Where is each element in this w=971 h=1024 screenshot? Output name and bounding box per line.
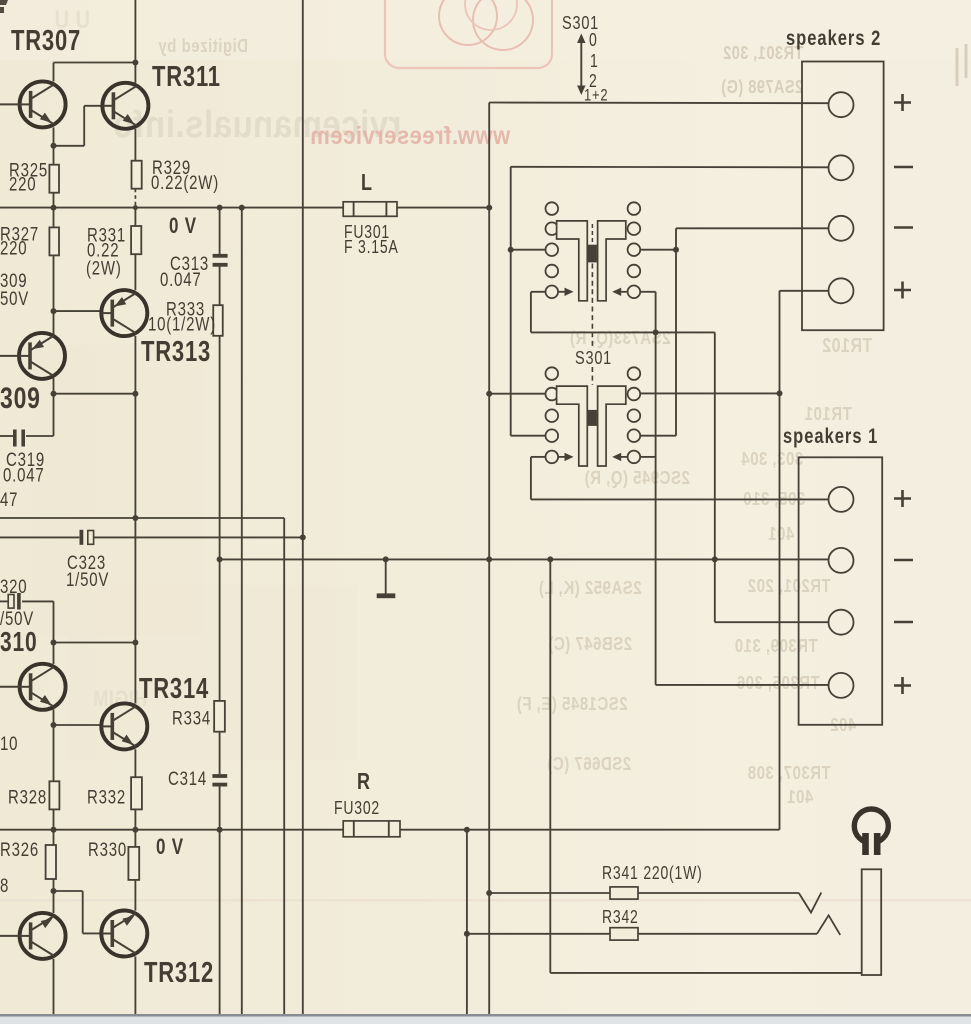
wire TR312 base zigzag <box>54 890 83 892</box>
svg-text:0 V: 0 V <box>156 835 184 860</box>
svg-text:320: 320 <box>0 575 27 597</box>
svg-text:TR101: TR101 <box>804 403 851 424</box>
wire headphone ground horizontal <box>550 972 861 974</box>
switch S301 upper slider <box>557 221 588 301</box>
node TR311 collector junction <box>132 60 138 66</box>
wire TR313 base link <box>54 310 102 312</box>
resistor R342 contact <box>638 933 817 935</box>
resistor R326 <box>46 845 56 879</box>
node C323 rail junction <box>300 534 306 540</box>
svg-text:TR201, 202: TR201, 202 <box>747 575 830 596</box>
transistor TR312 <box>101 911 147 957</box>
wire TR314 emitter to R332 <box>134 749 136 777</box>
svg-text:220: 220 <box>9 173 36 195</box>
wire L-channel feed vertical x=489.2 <box>488 103 490 1015</box>
wire C313 to R333 <box>219 267 221 306</box>
resistor R332 <box>131 777 142 809</box>
node C313 top junction <box>217 205 223 211</box>
speakers 2 polarity symbols <box>894 94 911 111</box>
svg-text:TR313: TR313 <box>141 336 211 367</box>
svg-text:1/50V: 1/50V <box>66 568 109 590</box>
svg-text:TR307, 308: TR307, 308 <box>747 762 830 783</box>
transistor TR309 base lead <box>0 355 19 357</box>
svg-text:TR102: TR102 <box>822 334 873 356</box>
node R325 bottom on 0V rail <box>51 205 57 211</box>
wire S301 upper row3 left <box>511 249 546 251</box>
node R332 bottom on 0V rail <box>132 827 138 833</box>
resistor R341 <box>610 887 638 899</box>
wire C323 rail (y=537.4) <box>0 536 79 538</box>
wire 0V to C313 <box>219 208 221 254</box>
wire TR307 emitter to R325 <box>53 127 55 164</box>
transistor TR310 base lead <box>0 686 20 688</box>
transistor TR307 <box>20 81 66 127</box>
wire loop to speakers1 plus1 <box>531 498 829 500</box>
transistor TR314 <box>101 703 147 749</box>
resistor R334 <box>214 701 225 732</box>
wire long vertical x=241.8 <box>241 208 243 1014</box>
transistor TR313 <box>101 290 147 336</box>
wire x=219.6 to bottom <box>219 830 221 1014</box>
node TR313 base junction <box>51 308 57 314</box>
svg-text:2SC945 (Q, R): 2SC945 (Q, R) <box>584 467 690 488</box>
headphone icon <box>854 809 888 843</box>
wire 0V rail upper (y=207.6) <box>0 207 343 209</box>
node TR309 emitter junction <box>51 391 57 397</box>
fuse FU302 <box>343 821 400 837</box>
node long-rail junction x=219.6 <box>217 556 223 562</box>
speakers 1 terminal circles <box>829 487 854 512</box>
wire R327 to TR309 collector <box>53 256 55 334</box>
resistor R329 <box>132 161 142 189</box>
transistor TR308 base lead <box>0 935 20 937</box>
wire S301 lower row4 left <box>511 435 546 437</box>
svg-text:2SA798 (G): 2SA798 (G) <box>721 78 803 98</box>
svg-text:speakers 2: speakers 2 <box>786 27 881 51</box>
svg-text:401: 401 <box>768 523 795 544</box>
wire R326 to TR308 <box>53 879 55 913</box>
wire TR309 emitter down <box>53 378 55 394</box>
transistor TR308 <box>20 913 66 959</box>
svg-text:(2W): (2W) <box>86 257 122 279</box>
wire terminated stub <box>385 559 387 593</box>
switch S301 selector arrow <box>580 39 582 90</box>
node mid-rail junction <box>132 515 138 521</box>
node x=489.2 long-rail junction <box>486 556 492 562</box>
node S301 upper row3 right junction <box>673 247 679 253</box>
wire S301 lower row5 loop <box>531 456 546 458</box>
svg-text:1+2: 1+2 <box>584 86 608 105</box>
node x=489.2 row2 junction <box>486 391 492 397</box>
wire TR314 base link <box>54 724 102 726</box>
speakers 2 terminal box <box>802 62 884 331</box>
node connector long-rail junction <box>712 556 718 562</box>
svg-text:TR314: TR314 <box>139 673 209 704</box>
svg-text:303, 304: 303, 304 <box>741 448 803 469</box>
capacitor C320 <box>8 595 14 609</box>
svg-text:TR312: TR312 <box>144 957 214 988</box>
node x=466.9 top junction <box>464 827 470 833</box>
svg-text:R334: R334 <box>172 707 211 729</box>
node C320 junction <box>51 640 57 646</box>
svg-text:S301: S301 <box>575 347 612 368</box>
svg-text:0: 0 <box>589 30 598 50</box>
node stub junction <box>383 556 389 562</box>
svg-text:speakers 1: speakers 1 <box>783 425 878 449</box>
svg-text:8: 8 <box>0 874 9 896</box>
capacitor C323 <box>80 530 84 545</box>
wire R334 to C314 <box>219 732 221 774</box>
wire C320 to TR310 <box>53 643 55 665</box>
node TR314 base junction <box>51 722 57 728</box>
resistor R342 wire <box>467 933 610 935</box>
wire TR313 emitter down <box>134 336 136 394</box>
svg-text:0 V: 0 V <box>169 214 197 239</box>
switch S301 travel dashed line <box>591 224 593 243</box>
svg-text:R328: R328 <box>8 786 47 808</box>
node TR313 emitter junction <box>132 391 138 397</box>
svg-text:0.047: 0.047 <box>3 464 44 486</box>
node R328 bottom on 0V rail <box>51 827 57 833</box>
svg-text:310: 310 <box>0 627 37 657</box>
wire R325 to R327 <box>53 193 55 228</box>
wire S301 lower row4 right <box>640 435 676 437</box>
node speakers1 minus2 junction <box>714 558 716 560</box>
resistor R341 wire <box>489 892 610 894</box>
wire TR311 emitter to R329 <box>134 129 136 161</box>
svg-text:309: 309 <box>0 381 41 415</box>
svg-text:10(1/2W): 10(1/2W) <box>148 313 216 335</box>
resistor R330 <box>128 847 139 880</box>
switch S301 lower wiper arrows <box>558 456 566 458</box>
wire long vertical x=302.8 <box>302 0 304 1014</box>
switch S301 upper wiper arrows <box>558 291 566 293</box>
svg-text:TR305, 306: TR305, 306 <box>736 672 819 693</box>
node S301 upper loop junction <box>653 329 659 335</box>
svg-text:R332: R332 <box>87 786 126 808</box>
wire TR312 emitter to bottom <box>134 956 136 1014</box>
svg-text:2SA952 (K, L): 2SA952 (K, L) <box>538 577 641 598</box>
transistor TR310 <box>20 664 66 710</box>
wire R332 to R330 <box>134 809 136 847</box>
resistor R331 <box>131 226 141 254</box>
capacitor C313 <box>213 254 228 258</box>
svg-text:401: 401 <box>787 786 814 807</box>
wire R333 to rail <box>219 336 221 701</box>
wire R342 feed vertical x=466.9 <box>466 830 468 1014</box>
wire connector to speakers1 minus3 <box>715 621 829 623</box>
transistor TR311 <box>102 83 148 129</box>
capacitor C319 <box>13 430 17 447</box>
wire R330 to TR312 collector <box>134 880 136 911</box>
transistor TR307 base lead <box>0 103 20 105</box>
resistor R341 contact <box>638 892 799 894</box>
wire TR309-TR313 emitter link <box>54 393 136 395</box>
switch S301 lower contact circles <box>546 367 559 380</box>
svg-text:TR309, 310: TR309, 310 <box>734 635 817 656</box>
transistor TR309 <box>19 333 65 379</box>
resistor R325 <box>49 165 59 193</box>
wire S301 upper row3 right <box>640 249 676 251</box>
resistor R342 <box>610 928 638 940</box>
switch S301 lower slider <box>557 386 588 466</box>
wire headphone ground vertical x=550.3 <box>549 559 551 973</box>
svg-text:Digitized by: Digitized by <box>158 35 248 56</box>
speakers 2 terminal circles <box>829 92 854 117</box>
svg-text:www.freeservicem: www.freeservicem <box>310 123 511 151</box>
node x=241.8 top junction <box>239 205 245 211</box>
wire R329 dashed lead <box>134 189 136 208</box>
wire S301 box top to speakers2 minus <box>511 166 829 169</box>
wire R328 to 0V <box>53 809 55 845</box>
wire speakers2 plus2 feed <box>780 290 829 292</box>
svg-text:C314: C314 <box>168 767 207 789</box>
speakers 1 polarity symbols <box>894 490 911 507</box>
svg-text:50V: 50V <box>0 287 29 309</box>
node x=489.2 R341 junction <box>486 890 492 896</box>
svg-text:1: 1 <box>590 51 599 71</box>
node TR312 base junction <box>51 888 57 894</box>
wire TR313 emitter long down <box>134 394 136 704</box>
wire speakers2 minus2 feed <box>676 227 829 229</box>
svg-text:R342: R342 <box>602 907 639 927</box>
wire 0V rail lower (y=829.7) <box>0 829 343 831</box>
wire TR310 collector link <box>54 642 136 644</box>
resistor R333 <box>213 305 223 336</box>
wire TR307 emitter zigzag to TR311 base <box>54 145 85 147</box>
wire S301 upper row5 loop <box>531 291 546 293</box>
wire TR308 emitter to bottom <box>53 959 55 1014</box>
node TR314 collector junction <box>132 640 138 646</box>
bottom scan strip <box>0 1014 971 1017</box>
scanner dark mark top-left corner <box>0 0 8 13</box>
wire long vertical to speakers1 plus4 <box>655 292 657 685</box>
node R329 bottom on 0V rail <box>133 205 138 210</box>
resistor R328 <box>49 781 59 809</box>
fuse FU301 <box>343 202 397 217</box>
wire L-channel top corner to speakers2 plus <box>489 102 828 105</box>
svg-text:2SD667 (C): 2SD667 (C) <box>547 753 631 774</box>
svg-text:47: 47 <box>0 488 18 510</box>
wire S301 lower row2 right <box>640 392 779 394</box>
svg-text:L: L <box>361 170 373 196</box>
svg-text:220: 220 <box>0 237 27 259</box>
wire TR310 emitter down <box>53 710 55 782</box>
wire TR307 collector feed <box>54 62 136 64</box>
svg-text:TR311: TR311 <box>152 61 221 92</box>
svg-text:TR307: TR307 <box>11 25 81 56</box>
wire long rail to speakers1 minus (y=559.4) <box>220 558 829 560</box>
ghost bleed-through from reverse page <box>54 0 966 807</box>
node C314 bottom on 0V rail <box>217 827 223 833</box>
svg-text:/50V: /50V <box>0 607 34 629</box>
svg-text:2SB647 (C): 2SB647 (C) <box>548 633 632 654</box>
speakers 1 terminal box <box>799 457 883 725</box>
wire C314 to 0V <box>219 786 221 831</box>
svg-text:R330: R330 <box>88 838 127 860</box>
wire top feed to TR311 <box>134 0 136 83</box>
capacitor C320 wire <box>0 600 8 602</box>
node x=550.3 top junction <box>547 556 553 562</box>
wire R331 top lead <box>134 208 136 226</box>
switch S301 upper contact circles <box>546 202 559 215</box>
wire S301 lower row2 left <box>489 393 545 395</box>
svg-text:0.047: 0.047 <box>160 268 201 290</box>
svg-text:R: R <box>357 769 371 795</box>
wire mid rail (y=518) <box>0 517 284 519</box>
headphone jack body <box>862 869 882 975</box>
wire mid-rail corner down (x=284.2) <box>283 518 285 1014</box>
node S301 upper row3 left junction <box>508 247 514 253</box>
svg-text:2SC1845 (E, F): 2SC1845 (E, F) <box>516 693 627 714</box>
wire R331 to TR313 collector <box>134 254 136 290</box>
resistor R327 <box>49 227 59 255</box>
svg-text:F 3.15A: F 3.15A <box>344 237 399 257</box>
node x=466.9 R342 junction <box>464 931 470 937</box>
svg-text:10: 10 <box>0 732 18 754</box>
node FU301 right junction <box>486 205 492 211</box>
svg-text:R341 220(1W): R341 220(1W) <box>602 863 703 883</box>
capacitor C314 <box>212 774 227 778</box>
svg-text:R326: R326 <box>0 838 39 860</box>
node TR307 emitter junction <box>51 143 57 149</box>
wire to C319 <box>53 394 55 436</box>
node S301 lower row2 right junction <box>777 390 783 396</box>
svg-text:FU302: FU302 <box>334 798 380 818</box>
wire S301 to speakers1 connector <box>714 332 716 622</box>
wire S301 box left vertical <box>510 167 512 436</box>
svg-text:0.22(2W): 0.22(2W) <box>151 171 219 193</box>
